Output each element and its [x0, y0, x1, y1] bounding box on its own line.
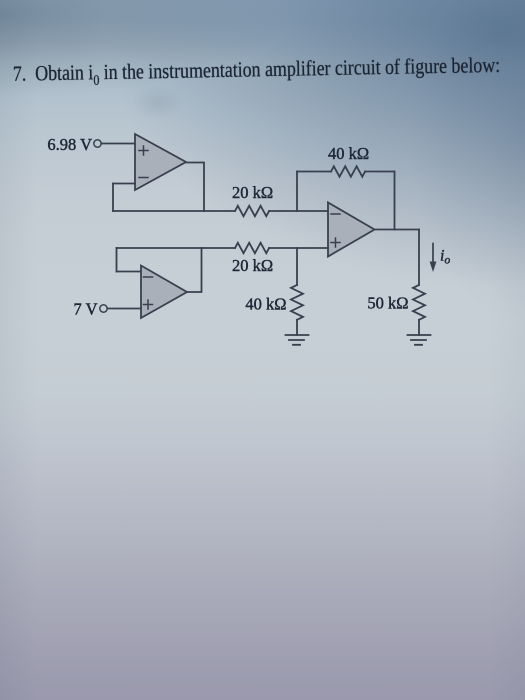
svg-text:7 V: 7 V: [74, 300, 98, 319]
wire U2 output: [187, 248, 202, 292]
wire R5 to ground: [418, 320, 420, 335]
wire feedback top right segment: [365, 171, 394, 173]
U2 + input symbol: [144, 300, 153, 309]
terminal circle V2: [100, 305, 107, 312]
wire U1 feedback left leg: [112, 184, 114, 212]
wire U1 - input stub: [113, 183, 135, 185]
resistor R4 40k vertical zigzag: [291, 285, 303, 320]
ground G2: [408, 335, 431, 345]
wire U3 output: [375, 229, 420, 231]
wire R4 top leg: [296, 248, 298, 285]
problem title text: [13, 52, 513, 91]
wire R1 to U3 - input: [269, 210, 328, 212]
wire U1 output: [186, 163, 204, 212]
svg-text:20 kΩ: 20 kΩ: [232, 183, 273, 202]
op-amp U3: [328, 203, 375, 257]
wire U1 output node to R1: [204, 210, 235, 212]
wire V2 to U2 + input: [107, 308, 141, 310]
wire feedback top left segment: [297, 171, 331, 173]
wire U2 - input stub: [117, 271, 142, 273]
resistor R1 20k zigzag: [235, 206, 269, 216]
wire output down leg: [418, 230, 420, 286]
wire R4 to ground: [296, 320, 298, 335]
wire U2 feedback left leg: [116, 248, 118, 272]
ground G1: [286, 335, 309, 345]
resistor R5 50k vertical zigzag: [413, 285, 425, 320]
U1 + input symbol: [139, 146, 148, 155]
wire feedback tap node B up leg: [296, 172, 298, 212]
svg-text:io: io: [440, 248, 450, 267]
wire U2 node to R2: [202, 247, 236, 249]
U3 + input symbol: [331, 238, 340, 247]
wire V1 to U1 + input: [101, 143, 135, 145]
svg-text:50 kΩ: 50 kΩ: [367, 294, 408, 313]
wire U2 feedback top: [117, 247, 202, 249]
svg-text:40 kΩ: 40 kΩ: [328, 144, 369, 163]
op-amp U1: [135, 134, 186, 190]
U2 - input symbol: [144, 276, 153, 278]
svg-text:6.98 V: 6.98 V: [47, 135, 92, 154]
wire feedback right down leg: [394, 172, 396, 230]
wire U1 feedback bottom: [113, 210, 204, 212]
terminal circle V1: [94, 140, 101, 147]
current arrow i_o: [432, 244, 434, 263]
svg-text:40 kΩ: 40 kΩ: [245, 295, 286, 314]
wire R2 to U3 + input: [269, 247, 328, 249]
svg-text:20 kΩ: 20 kΩ: [232, 256, 273, 275]
U3 - input symbol: [331, 213, 340, 215]
resistor R2 20k zigzag: [235, 243, 269, 253]
resistor R3 40k zigzag: [331, 166, 365, 176]
op-amp U2: [141, 266, 187, 319]
U1 - input symbol: [139, 177, 148, 179]
